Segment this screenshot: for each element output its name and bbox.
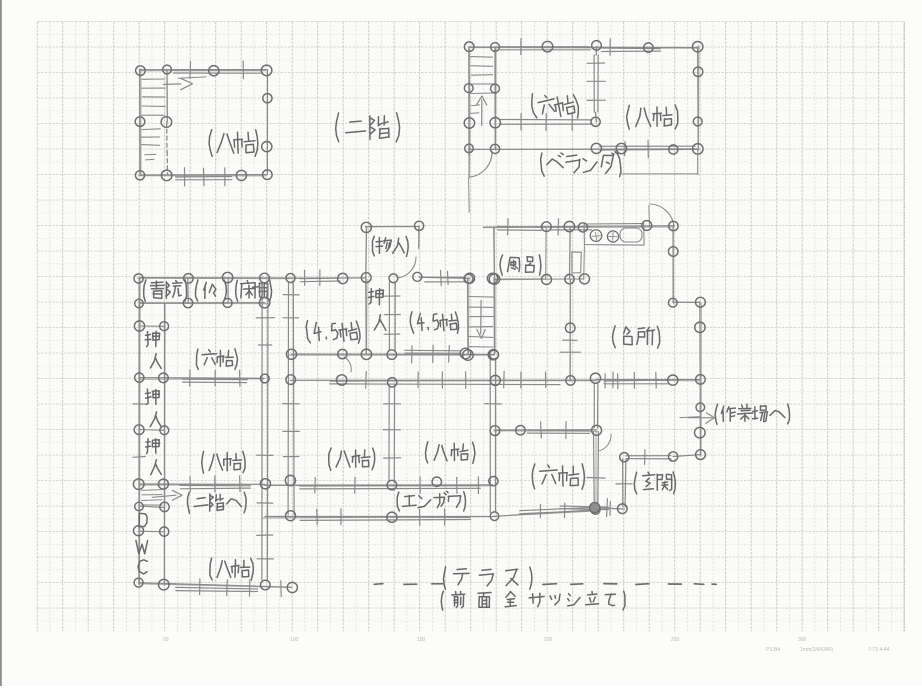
- workshop arrow: [688, 417, 712, 419]
- label C: [138, 560, 147, 574]
- genkan north wall: [596, 379, 700, 381]
- alcove top wall: [139, 277, 291, 279]
- 1F staircase: [467, 279, 469, 355]
- closet dividers: [139, 325, 164, 327]
- small door arc: [344, 357, 351, 372]
- west wall ticks: [133, 403, 146, 405]
- 2F stairs: [142, 78, 165, 80]
- hachijo mid divider: [139, 483, 265, 485]
- east wall of central hachijo: [489, 358, 491, 512]
- eave line right of veranda: [697, 149, 699, 174]
- oshiire 1: [145, 331, 160, 346]
- monoire door arc: [397, 257, 416, 278]
- label to workshop: [715, 404, 717, 424]
- 2F left room walls: [140, 69, 267, 71]
- corridor south wall: [291, 379, 596, 381]
- 2F wall between rooms: [593, 55, 595, 112]
- genkan entrance wall: [626, 455, 671, 457]
- alcove bottom wall: [139, 302, 265, 304]
- rokujo/hachijo divider wall: [139, 377, 265, 380]
- stair down arrow: [480, 300, 482, 334]
- svg-text:1mm(3/4X340): 1mm(3/4X340): [800, 647, 833, 653]
- genkan door arc: [598, 434, 611, 451]
- oshiire 3: [146, 439, 160, 454]
- 2F left room posts: [136, 66, 146, 76]
- corridor east wall of west block: [261, 283, 263, 580]
- left block south wall: [139, 583, 292, 588]
- label nikai (2nd floor): [336, 113, 339, 142]
- label 1F hachijo southwest: [210, 558, 212, 580]
- scan edge line left: [0, 0, 2, 686]
- terrace dashed line: [374, 583, 383, 586]
- label 2F hachijo: [209, 130, 212, 157]
- label rokujo east: [532, 464, 535, 489]
- svg-text:7-73 4-44: 7-73 4-44: [868, 647, 890, 653]
- entrance door arc top right: [650, 204, 674, 227]
- engawa south wall: [265, 516, 495, 518]
- label hachijo center-east: [426, 442, 428, 463]
- label 2F hachijo east: [627, 105, 630, 129]
- 1F north wall (bath/washroom row): [484, 226, 673, 227]
- svg-text:50: 50: [163, 637, 169, 643]
- 2F top window: [174, 69, 262, 71]
- tub capsule: [620, 228, 642, 242]
- label 4.5jo west: [306, 321, 311, 344]
- label D: [139, 513, 147, 527]
- closet wall: [163, 303, 165, 584]
- 2F stair hall wall: [494, 47, 496, 150]
- bath room walls: [493, 227, 496, 278]
- washstand counter: [584, 224, 644, 246]
- center closet walls: [365, 278, 368, 353]
- alcove dividers: [187, 278, 190, 304]
- 2F veranda rail: [600, 145, 696, 147]
- 2F stair arrow: [163, 83, 181, 86]
- stairs to 2F: [142, 489, 162, 492]
- genkan inner wall: [622, 459, 624, 507]
- washroom wall: [569, 227, 572, 279]
- label engawa: [397, 492, 399, 511]
- washing machine: [572, 252, 582, 273]
- 2F bottom window: [176, 176, 232, 179]
- label butsudan: [196, 280, 198, 301]
- genkan south wall: [596, 508, 624, 509]
- 2F stair up arrow: [481, 100, 483, 126]
- label 2F rokujo: [530, 94, 537, 119]
- left outer wall: [138, 278, 140, 584]
- label to 2F: [188, 492, 190, 513]
- svg-text:150: 150: [417, 637, 426, 643]
- label daidokoro kitchen: [613, 326, 616, 348]
- 1F storage monoire box: [366, 226, 420, 228]
- east outer wall: [699, 302, 702, 455]
- kitchen east wall upper: [672, 226, 674, 303]
- label shoin: [144, 280, 146, 301]
- label 1F hachijo west mid: [202, 451, 204, 473]
- 1F long north wall: [291, 277, 366, 279]
- 2F block posts: [464, 42, 474, 52]
- label 1F rokujo west: [196, 349, 198, 369]
- kitchen step wall: [673, 301, 699, 303]
- label terrace: [444, 567, 446, 589]
- dark entrance post: [590, 503, 600, 513]
- label hachijo center-west: [329, 448, 332, 470]
- label veranda: [540, 153, 544, 176]
- paper scale numbers: [163, 637, 890, 653]
- basin taps: [590, 230, 602, 242]
- label mono-ire closet: [373, 236, 375, 256]
- engawa north wall: [265, 484, 492, 486]
- rokujo-east north wall: [495, 429, 596, 431]
- oshiire 2: [146, 389, 160, 404]
- 2F right block outer walls: [469, 46, 697, 49]
- label oshiire center: [369, 289, 384, 305]
- label genkan entrance: [634, 472, 636, 494]
- kitchen west wall: [569, 279, 571, 381]
- central block west wall: [287, 283, 289, 515]
- 2F veranda door arc: [470, 151, 492, 177]
- hachijo center divider: [388, 385, 390, 482]
- 2F stair wall: [166, 70, 168, 122]
- label tokonoma shelf: [236, 280, 238, 301]
- corridor north wall: [291, 353, 493, 355]
- label front all sash: [441, 591, 443, 610]
- svg-text:200: 200: [544, 637, 553, 643]
- 2F stairs up: [471, 56, 493, 59]
- rokujo-east south wall: [495, 510, 595, 517]
- 2F rokujo bottom wall: [500, 119, 592, 121]
- svg-text:250: 250: [671, 637, 680, 643]
- label furo bath: [500, 255, 503, 275]
- label W: [136, 540, 148, 554]
- posts first floor: [134, 274, 143, 283]
- 2F top windows: [500, 46, 590, 48]
- svg-text:300: 300: [798, 637, 807, 643]
- svg-text:PS.B4: PS.B4: [766, 647, 780, 653]
- genkan west wall: [593, 384, 595, 428]
- label 4.5jo east: [410, 312, 414, 334]
- svg-text:100: 100: [290, 637, 299, 643]
